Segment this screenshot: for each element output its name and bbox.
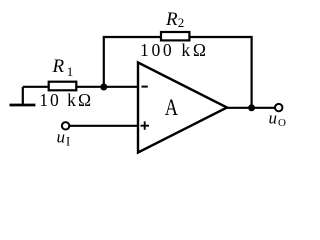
node junction at inverting input	[100, 84, 107, 91]
svg-text:u: u	[57, 128, 66, 147]
terminal u1 input	[62, 122, 69, 129]
terminal uO output	[275, 104, 282, 111]
wire ground to R1	[23, 86, 49, 88]
op-amp U1	[138, 63, 227, 153]
svg-text:A: A	[165, 94, 179, 121]
wire op-amp output	[226, 107, 275, 109]
svg-text:10 kΩ: 10 kΩ	[39, 90, 93, 110]
svg-text:R: R	[52, 56, 65, 77]
svg-text:1: 1	[67, 64, 74, 79]
label uI	[57, 128, 71, 149]
wire u1 to non-inverting input	[70, 125, 138, 127]
svg-text:2: 2	[178, 15, 185, 30]
resistor R2	[161, 32, 189, 40]
svg-text:O: O	[278, 117, 286, 129]
node junction at output	[248, 104, 255, 111]
svg-text:100 kΩ: 100 kΩ	[140, 40, 209, 60]
label uO	[269, 108, 287, 129]
ground	[10, 87, 36, 105]
wire feedback riser left	[104, 37, 161, 87]
resistor R1	[49, 82, 77, 91]
wire R1 to inverting input	[76, 86, 138, 88]
svg-text:u: u	[269, 108, 278, 127]
svg-text:R: R	[165, 9, 178, 30]
svg-text:I: I	[66, 134, 70, 148]
pin label plus	[141, 121, 150, 129]
pin label minus	[142, 86, 148, 88]
wire R2 to output riser	[189, 37, 251, 108]
label R2	[165, 9, 184, 30]
label R1	[52, 56, 74, 79]
